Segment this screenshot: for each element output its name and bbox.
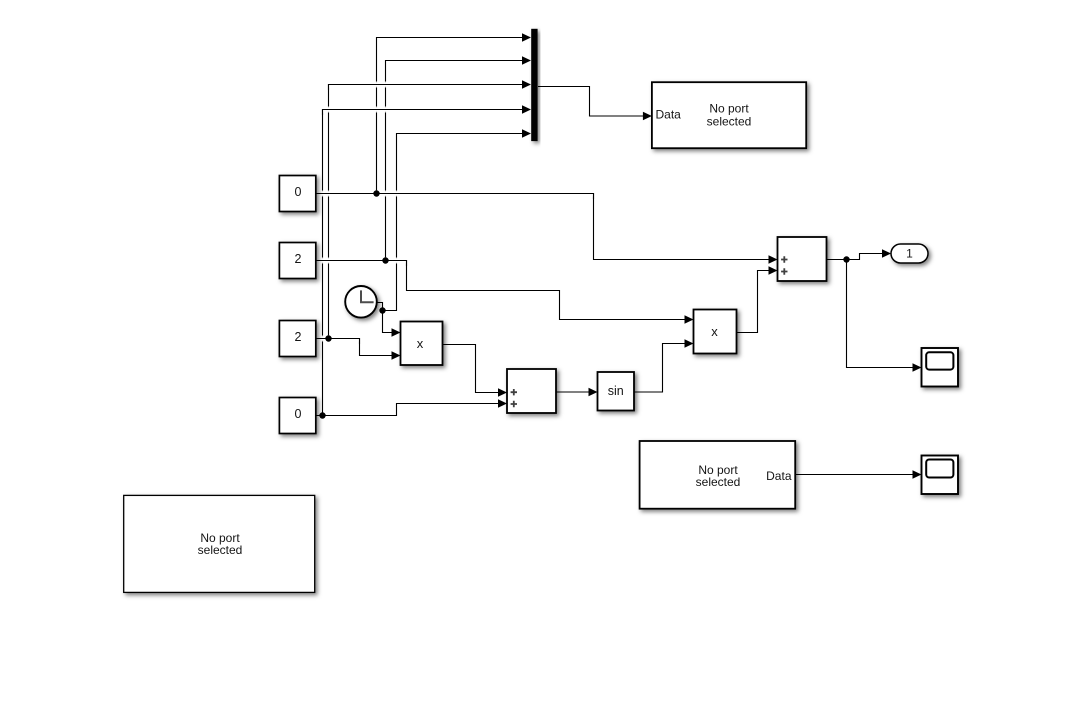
svg-text:x: x xyxy=(711,324,718,339)
svg-text:sin: sin xyxy=(608,384,624,398)
svg-text:2: 2 xyxy=(295,330,302,344)
svg-text:Data: Data xyxy=(766,469,792,483)
svg-text:selected: selected xyxy=(707,115,752,129)
svg-text:selected: selected xyxy=(198,543,243,557)
svg-text:x: x xyxy=(417,336,424,351)
svg-text:No port: No port xyxy=(709,102,749,116)
svg-text:0: 0 xyxy=(295,407,302,421)
svg-text:0: 0 xyxy=(295,185,302,199)
svg-text:1: 1 xyxy=(906,247,913,261)
svg-text:selected: selected xyxy=(696,475,741,489)
svg-text:2: 2 xyxy=(295,252,302,266)
svg-text:Data: Data xyxy=(656,108,682,122)
